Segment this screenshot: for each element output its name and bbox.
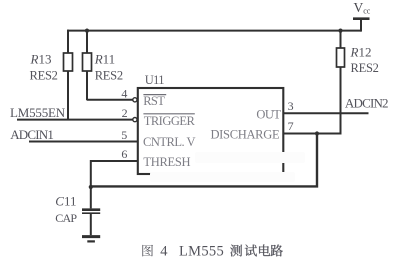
wire: net LM555EN to pin 2 xyxy=(17,119,133,121)
svg-text:OUT: OUT xyxy=(256,108,281,122)
caption: figure title 图4 LM555 测试电路 xyxy=(142,243,283,259)
svg-text:ADCIN2: ADCIN2 xyxy=(345,96,388,111)
pin 2 inversion bubble xyxy=(133,118,137,122)
svg-text:TRIGGER: TRIGGER xyxy=(144,114,196,128)
resistor R12 xyxy=(337,31,345,135)
caption char 测 xyxy=(230,245,242,257)
svg-text:THRESH: THRESH xyxy=(143,155,190,169)
svg-text:7: 7 xyxy=(288,119,294,133)
wire: VCC top rail xyxy=(67,30,361,32)
wire: net ADCIN1 to pin 5 xyxy=(29,141,138,143)
svg-text:5: 5 xyxy=(121,128,127,142)
svg-text:R12: R12 xyxy=(350,44,372,59)
wire: VCC stub xyxy=(360,19,362,32)
svg-text:C11: C11 xyxy=(55,194,76,209)
junction: cap top node xyxy=(89,185,93,189)
wire: pin 3 OUT to net ADCIN2 xyxy=(283,112,368,114)
caption char 图 xyxy=(142,245,153,257)
svg-text:6: 6 xyxy=(121,147,127,161)
svg-text:3: 3 xyxy=(288,99,294,113)
svg-text:cc: cc xyxy=(363,7,371,16)
wire: pin 7 DISCHARGE to R12 bottom xyxy=(283,133,340,135)
wire: pin 4 RST xyxy=(87,99,133,101)
svg-text:DISCHARGE: DISCHARGE xyxy=(210,128,279,142)
watermark xyxy=(150,152,305,182)
svg-text:4: 4 xyxy=(160,243,168,259)
svg-text:4: 4 xyxy=(121,86,127,100)
IC U11 body xyxy=(138,88,283,174)
resistor R11 xyxy=(83,31,92,101)
svg-text:LM555EN: LM555EN xyxy=(10,105,66,120)
caption char 电 xyxy=(259,244,270,256)
power VCC bar xyxy=(353,17,370,20)
svg-text:CNTRL. V: CNTRL. V xyxy=(143,135,195,149)
pin 4 inversion bubble xyxy=(133,98,137,102)
svg-text:R11: R11 xyxy=(94,51,115,66)
svg-text:RES2: RES2 xyxy=(351,61,379,75)
svg-text:LM555: LM555 xyxy=(179,243,224,259)
svg-text:RES2: RES2 xyxy=(95,69,123,83)
pin name TRIGGER overline xyxy=(143,113,194,115)
caption char 路 xyxy=(271,244,283,256)
capacitor C11 xyxy=(82,187,100,235)
svg-text:R13: R13 xyxy=(30,51,52,66)
svg-text:V: V xyxy=(354,0,364,15)
svg-text:2: 2 xyxy=(122,106,128,120)
svg-text:U11: U11 xyxy=(145,73,164,87)
resistor R13 xyxy=(64,30,73,121)
junction: discharge node xyxy=(315,131,319,135)
junction: R12 top on VCC rail xyxy=(338,29,342,33)
caption char 试 xyxy=(245,245,257,257)
ground xyxy=(82,237,100,242)
wire: pin 6 THRESH to cap node xyxy=(91,161,138,188)
svg-text:CAP: CAP xyxy=(55,211,77,225)
svg-text:RST: RST xyxy=(143,94,165,108)
wire: discharge node down and along bottom to cap node xyxy=(91,134,317,187)
svg-text:ADCIN1: ADCIN1 xyxy=(10,127,53,142)
svg-text:RES2: RES2 xyxy=(30,69,58,83)
junction: R11 top on VCC rail xyxy=(85,29,89,33)
pin name RST overline xyxy=(143,94,166,96)
label VCC xyxy=(354,0,371,16)
